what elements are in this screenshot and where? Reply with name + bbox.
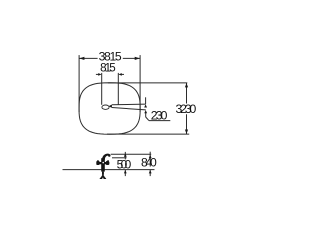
arrowhead 3230 top [185,83,188,87]
dimension 840 top stem [149,152,151,158]
stem below body [102,172,104,175]
arrowhead 3815 left [79,57,84,60]
arrowhead 840 top [149,155,152,158]
dimension 500 top stem [124,152,126,160]
svg-text:500: 500 [117,157,132,171]
side view line A spout height [111,153,152,155]
left handle knob [96,161,99,165]
arrowhead 500 bottom [124,170,127,173]
hand shower leader upper line 230 [112,103,146,106]
svg-text:840: 840 [141,156,157,170]
extension line left of dimension 815 [101,73,103,105]
arrowhead 815 left (outside pointing right) [98,73,101,76]
extension line right of dimension 815 [117,73,119,105]
arrowhead 230 upper [144,104,147,107]
right handle knob [106,161,109,165]
svg-text:815: 815 [100,61,116,74]
arrowhead at hand shower ellipse [109,105,112,108]
hand shower ellipse (top view) [102,105,109,109]
left handle nub [97,160,98,161]
svg-text:3230: 3230 [176,102,197,116]
handle bar [97,162,110,164]
spout curve [102,154,111,160]
shower area superellipse (top view) [79,83,140,134]
leader underline of 230 label [149,120,170,122]
svg-text:230: 230 [151,109,168,123]
arrowhead 500 top [124,153,127,157]
splayed base (trumpet foot) [100,174,107,179]
arrowhead 3230 bottom [185,130,188,134]
dimension 230 stem above [145,97,147,104]
dimension line 3815 [79,57,97,59]
dimension 840 bottom stem [149,170,151,176]
extension line left of dimension 3815 [78,55,80,112]
dimension 500 bottom stem [124,170,126,176]
right handle nub [107,160,108,161]
bath mixer fitting silhouette (side view) [96,154,110,179]
arrowhead 3815 right [135,57,140,60]
extension line right of dimension 3815 [139,55,141,112]
dimension 230 stem below [145,113,147,117]
dimension 815 outside dashes [96,73,99,75]
dimension line 3230 [186,83,188,104]
white hole in handle axis [102,162,104,164]
hand shower leader lower line 230 [112,108,146,110]
arrowhead 230 lower [144,110,147,113]
leader diagonal to 230 label [146,117,149,121]
side view wall line C [63,169,155,171]
floor reference line (top view) [107,133,189,135]
side view line B 500 height [112,157,127,159]
fitting body [101,158,105,171]
top tangent extension line to dimension 3230 [108,82,187,84]
arrowhead 840 bottom [149,170,152,173]
arrowhead 815 right (outside pointing left) [118,73,121,76]
white slit in base [102,177,104,179]
